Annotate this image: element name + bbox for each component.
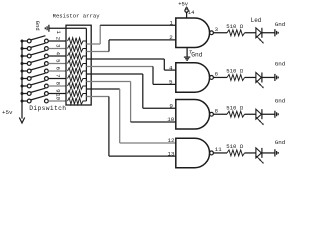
switch S3 [22,51,48,58]
node junction dot row 10 [21,100,24,103]
LED D2 [256,73,264,89]
svg-text:Led: Led [251,17,262,24]
output bubble [210,112,214,116]
wire array to U1 pin 5 [86,67,175,85]
switch S9 [22,96,48,103]
svg-text:8: 8 [54,82,61,85]
resistor element 2 [68,38,87,45]
svg-text:Gnd: Gnd [275,21,286,28]
NAND gate U1a [176,18,210,48]
svg-text:Gnd: Gnd [275,139,286,146]
wire switch to resistor pin 10 [48,100,66,102]
ground (LED 2) [275,74,278,81]
NAND gate U1c [176,100,210,130]
svg-text:3: 3 [215,26,219,33]
wire U1 output pin 3 [213,32,227,34]
resistor element 8 [68,83,87,90]
svg-text:10: 10 [167,116,175,123]
wire U1 output pin 6 [213,76,227,78]
svg-text:14: 14 [188,10,194,16]
switch S8 [22,88,48,95]
wire switch to resistor pin 4 [48,55,66,57]
svg-text:4: 4 [169,64,173,71]
resistor array RN1 box [66,25,91,105]
svg-text:7: 7 [54,74,61,77]
wire resistor to LED [245,152,256,154]
wire switch to resistor pin 2 [48,40,66,42]
svg-text:+5v: +5v [178,1,189,8]
svg-text:12: 12 [167,137,175,144]
node junction dot row 5 [21,62,24,65]
resistor element 9 [68,90,87,97]
wire array to U1 pin 4 [86,59,175,70]
svg-text:1: 1 [170,19,174,26]
wire array to U1 pin 13 [86,97,176,157]
wire U1 output pin 8 [213,113,227,115]
wire gnd to array pin 1 [49,27,87,29]
svg-text:10: 10 [54,93,61,100]
svg-text:Gnd: Gnd [191,52,202,59]
node junction dot row 9 [21,92,24,95]
svg-text:Gnd: Gnd [34,21,41,31]
switch S7 [22,81,48,88]
NAND gate U1b [176,63,210,92]
ground (LED 4) [275,149,278,156]
ground (resistor array common) [45,25,49,32]
resistor R2 510 ohm [227,75,245,81]
svg-text:5: 5 [54,59,61,62]
switch S5 [22,66,48,73]
array common bus [85,28,87,101]
ground (LED 3) [275,111,278,118]
svg-text:510 Ω: 510 Ω [226,68,243,75]
resistor element 7 [68,75,87,82]
svg-text:13: 13 [167,150,175,157]
wire +5v bus [21,41,23,119]
LED D3 [256,109,264,125]
wire array to U1 pin 12 [86,89,176,143]
resistor R1 510 ohm [227,30,245,36]
+5v arrow terminal [19,118,24,124]
svg-text:3: 3 [54,44,61,47]
wire array to U1 pin 1 [86,25,175,44]
NAND gate U1d [176,138,210,168]
ground (LED 1) [275,29,278,36]
resistor element 4 [68,53,87,60]
svg-text:8: 8 [215,107,219,114]
wire switch to resistor pin 8 [48,85,66,87]
node junction dot row 7 [21,77,24,80]
LED D4 [256,148,264,164]
svg-text:9: 9 [169,103,173,110]
node junction dot row 4 [21,55,24,58]
svg-text:510 Ω: 510 Ω [226,104,243,111]
svg-text:2: 2 [54,37,61,40]
svg-text:Gnd: Gnd [275,97,286,104]
wire pin14 [186,12,188,18]
svg-text:Gnd: Gnd [275,61,286,68]
resistor element 6 [68,68,87,75]
output bubble [210,76,214,80]
wire resistor to LED [245,113,256,115]
svg-text:9: 9 [54,89,61,92]
svg-text:6: 6 [54,67,61,70]
wire pin 7 to ground [186,48,188,57]
wire LED to ground [262,76,275,78]
svg-text:510 Ω: 510 Ω [226,143,243,150]
ground (U1 pin 7) [184,57,190,60]
svg-text:5: 5 [169,79,173,86]
node junction dot row 6 [21,70,24,73]
svg-text:Dipswitch: Dipswitch [29,105,66,112]
node junction dot row 2 [21,40,24,43]
wire array to U1 pin 9 [86,74,176,108]
wire array to U1 pin 2 [86,40,175,52]
svg-text:2: 2 [169,34,173,41]
resistor element 5 [68,60,87,67]
wire switch to resistor pin 7 [48,78,66,80]
wire LED to ground [262,152,275,154]
switch S1 [22,36,48,43]
svg-text:Resistor array: Resistor array [53,13,101,20]
output bubble [210,31,214,35]
wire switch to resistor pin 9 [48,93,66,95]
switch S4 [22,58,48,65]
output bubble [210,151,214,155]
resistor element 10 [68,98,87,105]
resistor R4 510 ohm [227,150,245,156]
wire switch to resistor pin 3 [48,48,66,50]
svg-text:6: 6 [215,71,219,78]
wire switch to resistor pin 5 [48,63,66,65]
node junction dot row 8 [21,85,24,88]
wire array to U1 pin 10 [86,82,176,123]
svg-text:11: 11 [215,146,222,153]
LED D1 [256,28,264,44]
+5v terminal circle [185,9,188,12]
wire resistor to LED [245,32,256,34]
wire U1 output pin 11 [213,152,227,154]
svg-text:+5v: +5v [2,109,13,116]
switch S6 [22,73,48,80]
switch S2 [22,43,48,50]
resistor R3 510 ohm [227,111,245,117]
wire resistor to LED [245,76,256,78]
wire LED to ground [262,113,275,115]
wire switch to resistor pin 6 [48,70,66,72]
svg-text:510 Ω: 510 Ω [226,23,243,30]
node junction dot row 3 [21,47,24,50]
wire LED to ground [262,32,275,34]
resistor element 3 [68,45,87,52]
